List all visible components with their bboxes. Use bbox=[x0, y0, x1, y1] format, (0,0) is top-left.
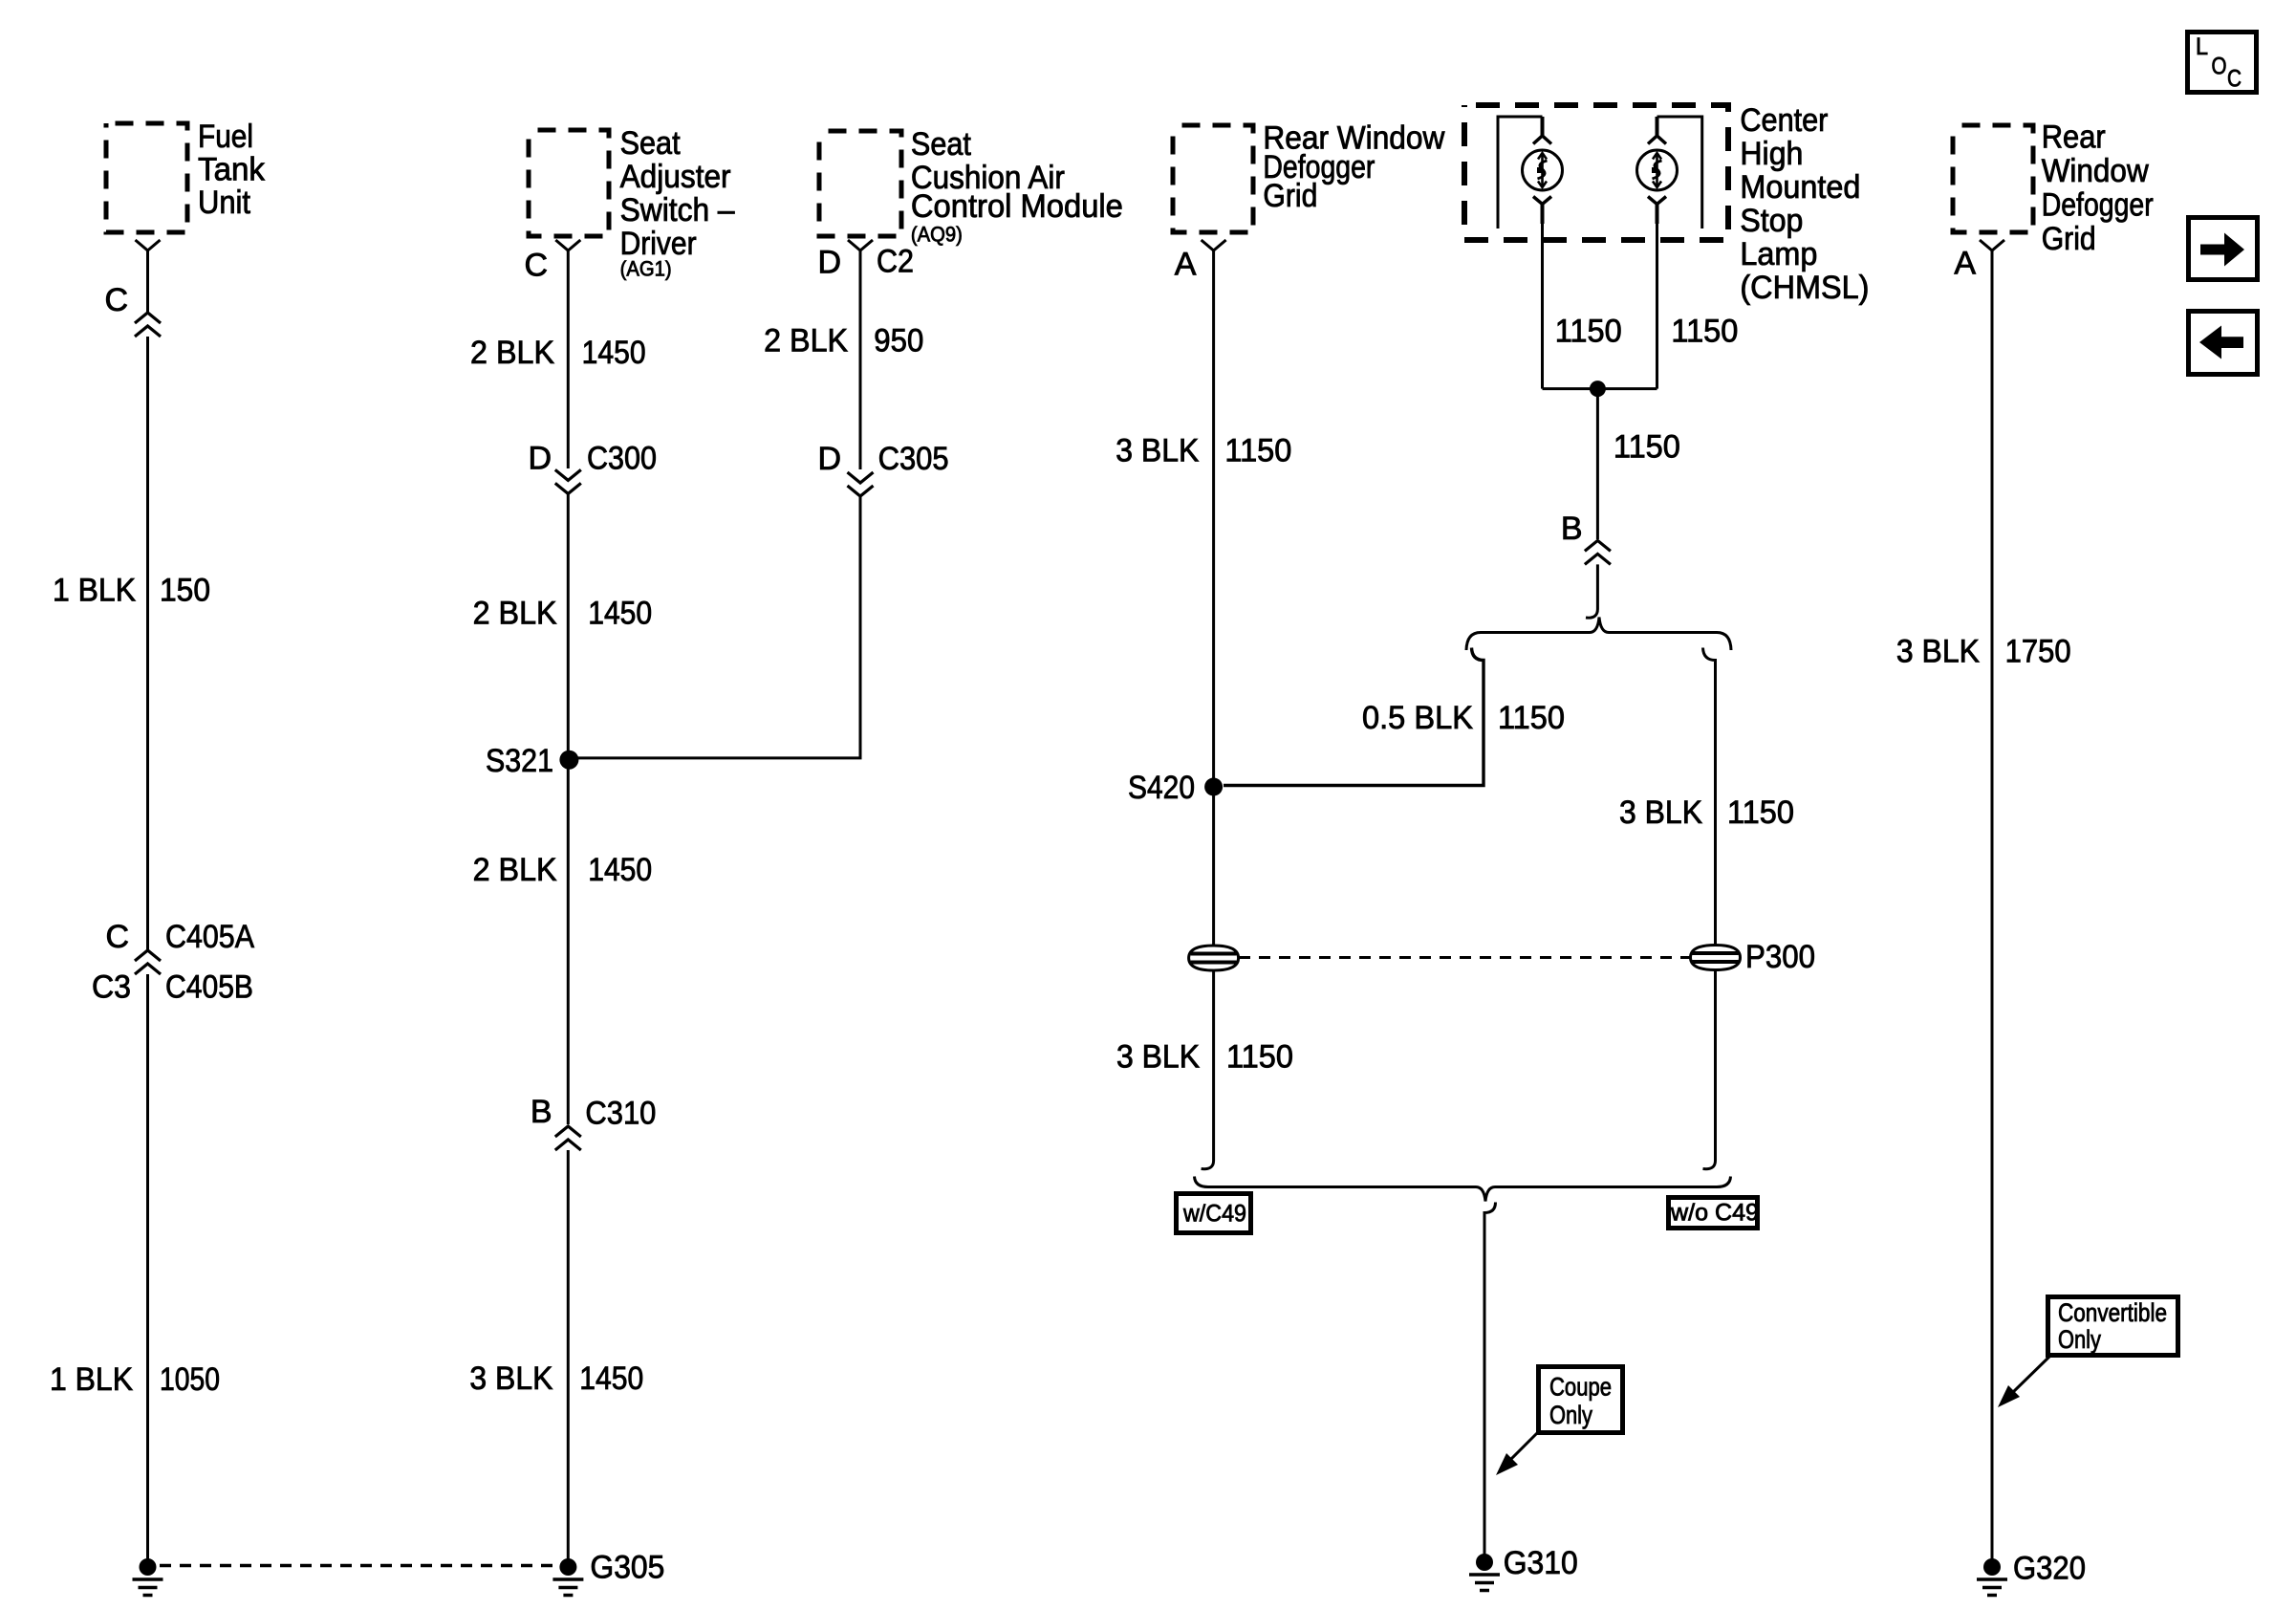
component DG2: Rear Window Defogger Grid right (dashed box) bbox=[1953, 120, 2154, 258]
svg-text:0.5 BLK: 0.5 BLK bbox=[1362, 700, 1473, 736]
connector C (out-of-page double chevron, fuel tank) bbox=[135, 313, 161, 337]
wire: 3 BLK 1750 from right defogger grid to G320 bbox=[1991, 250, 1994, 1560]
svg-text:G320: G320 bbox=[2013, 1551, 2086, 1587]
wire: w/o C49 branch hook top down to P300 right bbox=[1703, 648, 1716, 946]
svg-text:(AG1): (AG1) bbox=[620, 257, 672, 281]
svg-text:D: D bbox=[817, 244, 841, 280]
svg-text:Window: Window bbox=[2042, 153, 2149, 189]
svg-text:2 BLK: 2 BLK bbox=[764, 323, 848, 359]
callout box: Coupe Only bbox=[1539, 1367, 1623, 1433]
wire: 2 BLK 1450 from C300 through splice S321 to C310 bbox=[567, 494, 570, 1124]
wire: 2 BLK 1450 from switch to C300 bbox=[567, 250, 570, 468]
wire: S420 down to P300 pass-through bbox=[1212, 787, 1215, 946]
pin label C (fuel tank unit) bbox=[104, 282, 128, 318]
svg-text:Seat: Seat bbox=[911, 126, 971, 163]
pin label A (left defogger grid) bbox=[1175, 247, 1197, 283]
svg-text:3 BLK: 3 BLK bbox=[1619, 794, 1702, 831]
wire label: 3 BLK 1750 bbox=[1896, 634, 2071, 670]
svg-text:(CHMSL): (CHMSL) bbox=[1740, 270, 1869, 306]
wire: left bulb 1150 lead down to junction bbox=[1541, 224, 1544, 389]
svg-text:Only: Only bbox=[1549, 1401, 1592, 1429]
svg-text:Stop: Stop bbox=[1740, 203, 1803, 239]
wire: dashed tie line of P300 bbox=[1239, 956, 1690, 959]
wire: stub from B chevrons to option brace (hooked end) bbox=[1586, 564, 1597, 618]
wire label: 1 BLK 1050 bbox=[50, 1361, 220, 1398]
wire: right lamp internal feed (staple) bbox=[1657, 117, 1702, 228]
splice S420 (junction dot) bbox=[1128, 770, 1223, 806]
wire label: 2 BLK 1450 (below S321) bbox=[473, 852, 653, 888]
svg-text:1150: 1150 bbox=[1498, 700, 1565, 736]
wire: 1150 from junction down to connector B bbox=[1596, 389, 1599, 539]
wire label: 1150 (right bulb lead) bbox=[1671, 313, 1738, 349]
svg-text:950: 950 bbox=[874, 323, 923, 359]
legend: back arrow box bbox=[2189, 312, 2258, 375]
brace: option merge (bottom underbrace) bbox=[1195, 1177, 1731, 1202]
wire label: 3 BLK 1150 (above S420) bbox=[1116, 433, 1291, 469]
wire: w/C49 branch 0.5 BLK 1150, hook top then down and left to S420 bbox=[1224, 648, 1484, 786]
lamp DS1: left CHMSL bulb bbox=[1523, 117, 1563, 224]
svg-text:1150: 1150 bbox=[1226, 1038, 1293, 1075]
pin label A (right defogger grid) bbox=[1954, 246, 1976, 282]
connector C405 (C C405A / C3 C405B) bbox=[92, 919, 254, 1006]
svg-text:Center: Center bbox=[1740, 102, 1828, 139]
svg-text:L: L bbox=[2196, 33, 2208, 60]
component S1: Seat Adjuster Switch - Driver (dashed box) bbox=[529, 125, 735, 281]
svg-text:C405B: C405B bbox=[165, 969, 253, 1006]
svg-text:Seat: Seat bbox=[620, 125, 681, 162]
svg-text:C: C bbox=[524, 248, 548, 284]
svg-text:C: C bbox=[2227, 66, 2242, 93]
svg-text:3 BLK: 3 BLK bbox=[1896, 634, 1980, 670]
svg-text:Tank: Tank bbox=[198, 152, 266, 188]
svg-text:1 BLK: 1 BLK bbox=[53, 573, 136, 609]
wire: 2 BLK 1450 from C305 down and left to splice S321 bbox=[570, 497, 860, 758]
wire label: 2 BLK 1450 (below C300) bbox=[473, 595, 653, 631]
callout box: Convertible Only bbox=[2048, 1297, 2178, 1356]
svg-text:1450: 1450 bbox=[579, 1360, 643, 1397]
svg-text:C305: C305 bbox=[878, 441, 949, 477]
svg-text:C: C bbox=[105, 919, 129, 955]
brace: option split (top overbrace) bbox=[1466, 618, 1731, 651]
svg-text:Coupe: Coupe bbox=[1549, 1373, 1612, 1402]
svg-text:G305: G305 bbox=[590, 1550, 664, 1586]
wire label: 1150 (junction to B) bbox=[1614, 428, 1680, 465]
svg-text:1750: 1750 bbox=[2005, 634, 2071, 670]
wire: 3 BLK 1150 from defogger grid to splice S420 bbox=[1212, 250, 1215, 787]
connector C305 (pin D, in-line double chevron down) bbox=[817, 441, 948, 496]
pin arrow at left defogger grid output bbox=[1202, 240, 1226, 250]
component M1: Seat Cushion Air Control Module (dashed box) bbox=[819, 126, 1123, 247]
svg-text:w/C49: w/C49 bbox=[1182, 1201, 1246, 1228]
option tag box: w/C49 bbox=[1177, 1194, 1251, 1233]
svg-text:2 BLK: 2 BLK bbox=[473, 852, 557, 888]
svg-text:B: B bbox=[531, 1094, 552, 1130]
label: P300 bbox=[1745, 939, 1815, 975]
pin arrow at right defogger grid output bbox=[1980, 240, 2004, 250]
wire: merged ground lead from brace cusp down to G310 bbox=[1484, 1203, 1496, 1556]
svg-text:C3: C3 bbox=[92, 969, 131, 1006]
svg-text:3 BLK: 3 BLK bbox=[1116, 433, 1199, 469]
svg-text:C2: C2 bbox=[877, 244, 914, 280]
svg-text:1150: 1150 bbox=[1614, 428, 1680, 465]
svg-text:B: B bbox=[1561, 511, 1583, 547]
svg-text:D: D bbox=[817, 441, 841, 477]
callout arrow: Coupe Only points to ground lead bbox=[1496, 1433, 1537, 1475]
svg-text:Switch –: Switch – bbox=[620, 192, 735, 228]
svg-text:C310: C310 bbox=[585, 1096, 656, 1132]
wire: right bulb 1150 lead down to junction bbox=[1656, 224, 1658, 389]
option tag box: w/o C49 bbox=[1669, 1198, 1760, 1229]
ground symbol (left leg of G305) bbox=[133, 1558, 163, 1596]
wire label: 2 BLK 950 bbox=[764, 323, 923, 359]
svg-text:Control Module: Control Module bbox=[911, 188, 1123, 225]
wire: w/o C49 branch from P300 down to option end bbox=[1703, 970, 1716, 1169]
svg-text:Lamp: Lamp bbox=[1740, 236, 1817, 272]
legend: forward arrow box bbox=[2189, 218, 2258, 280]
legend: LOC reference box bbox=[2188, 33, 2257, 93]
wire: 1 BLK 1050 segment from C405B to ground G305 left leg bbox=[146, 974, 149, 1560]
svg-text:Rear: Rear bbox=[2042, 120, 2106, 156]
svg-text:Convertible: Convertible bbox=[2058, 1298, 2167, 1327]
svg-text:1150: 1150 bbox=[1671, 313, 1738, 349]
splice S321 (junction dot) bbox=[486, 743, 578, 779]
connector B (out-of-page double chevron, CHMSL feed) bbox=[1561, 511, 1611, 564]
svg-text:C: C bbox=[104, 282, 128, 318]
svg-text:1450: 1450 bbox=[588, 595, 652, 631]
svg-text:High: High bbox=[1740, 136, 1803, 172]
ground G305 (right leg, main ground symbol) bbox=[552, 1550, 664, 1596]
callout arrow: Convertible Only points to ground lead bbox=[1998, 1357, 2049, 1407]
svg-text:w/o C49: w/o C49 bbox=[1670, 1200, 1759, 1227]
svg-text:150: 150 bbox=[160, 573, 210, 609]
svg-text:1 BLK: 1 BLK bbox=[50, 1361, 133, 1398]
wire label: 3 BLK 1150 (w/o C49 branch) bbox=[1619, 794, 1794, 831]
ground G320 bbox=[1977, 1551, 2086, 1596]
svg-text:Only: Only bbox=[2058, 1325, 2101, 1354]
component U1: Fuel Tank Unit (dashed box) bbox=[106, 119, 266, 232]
lamp DS2: right CHMSL bulb bbox=[1637, 117, 1678, 224]
svg-text:O: O bbox=[2212, 54, 2227, 80]
svg-text:G310: G310 bbox=[1504, 1545, 1578, 1581]
svg-text:C405A: C405A bbox=[165, 919, 254, 955]
pin arrow at Seat Cushion Air Control Module output bbox=[848, 240, 873, 250]
svg-text:Fuel: Fuel bbox=[198, 119, 253, 155]
wire: dashed ground tie between both G305 legs bbox=[160, 1564, 558, 1567]
svg-text:1150: 1150 bbox=[1555, 313, 1622, 349]
wire label: 3 BLK 1150 (below P300) bbox=[1116, 1038, 1293, 1075]
pin arrow at Fuel Tank Unit output bbox=[136, 240, 161, 250]
svg-text:Mounted: Mounted bbox=[1740, 169, 1860, 206]
wire: 3 BLK 1150 from P300 down to w/C49 option end bbox=[1202, 970, 1214, 1169]
svg-text:2 BLK: 2 BLK bbox=[470, 335, 554, 371]
svg-text:A: A bbox=[1954, 246, 1976, 282]
svg-text:P300: P300 bbox=[1745, 939, 1815, 975]
svg-text:Unit: Unit bbox=[198, 185, 250, 221]
wire label: 3 BLK 1450 bbox=[469, 1360, 643, 1397]
component E1: Center High Mounted Stop Lamp CHMSL (dashed box) bbox=[1464, 102, 1869, 306]
pin label D / connector C2 bbox=[817, 244, 914, 281]
pin label C (seat adjuster switch) bbox=[524, 248, 548, 284]
svg-text:Grid: Grid bbox=[2042, 221, 2096, 257]
svg-text:Defogger: Defogger bbox=[2042, 187, 2154, 224]
svg-text:1450: 1450 bbox=[582, 335, 646, 371]
svg-text:1450: 1450 bbox=[588, 852, 652, 888]
pin arrow at Seat Adjuster Switch output bbox=[555, 240, 580, 250]
component DG1: Rear Window Defogger Grid left (dashed box) bbox=[1173, 120, 1445, 232]
svg-text:1050: 1050 bbox=[160, 1361, 220, 1398]
connector C300 (pin D, in-line double chevron down) bbox=[528, 440, 657, 493]
svg-text:(AQ9): (AQ9) bbox=[911, 223, 963, 247]
svg-text:1150: 1150 bbox=[1224, 433, 1291, 469]
svg-text:Grid: Grid bbox=[1263, 178, 1317, 214]
svg-text:A: A bbox=[1175, 247, 1197, 283]
svg-text:3 BLK: 3 BLK bbox=[1116, 1038, 1200, 1075]
wire: left lamp internal feed (staple) bbox=[1498, 117, 1543, 228]
svg-text:S321: S321 bbox=[486, 743, 553, 779]
ground G310 bbox=[1469, 1545, 1578, 1591]
wire: 1 BLK 150 segment down to C405 bbox=[146, 337, 149, 949]
svg-text:3 BLK: 3 BLK bbox=[469, 1360, 552, 1397]
wire label: 1150 (left bulb lead) bbox=[1555, 313, 1622, 349]
wire: fuel tank unit pin C down to connector chevrons bbox=[146, 250, 149, 312]
svg-text:C300: C300 bbox=[587, 440, 657, 476]
svg-text:S420: S420 bbox=[1128, 770, 1195, 806]
connector C310 (pin B, in-line double chevron up) bbox=[531, 1094, 656, 1150]
wire: junction bar joining both bulb leads bbox=[1543, 387, 1657, 390]
wire: 3 BLK 1450 from C310 to ground G305 bbox=[567, 1150, 570, 1560]
wire label: 1 BLK 150 bbox=[53, 573, 210, 609]
svg-text:2 BLK: 2 BLK bbox=[473, 595, 557, 631]
wire label: 0.5 BLK 1150 bbox=[1362, 700, 1565, 736]
svg-text:1150: 1150 bbox=[1727, 794, 1794, 831]
wire label: 2 BLK 1450 (above C300) bbox=[470, 335, 646, 371]
node: CHMSL lead junction dot bbox=[1590, 381, 1606, 397]
svg-text:Adjuster: Adjuster bbox=[620, 159, 731, 195]
connector P300 (left grommet symbol) bbox=[1189, 946, 1239, 970]
svg-text:D: D bbox=[528, 440, 552, 476]
connector P300 (right grommet symbol) bbox=[1691, 946, 1741, 970]
wire: 2 BLK 950 from module C2 to C305 bbox=[859, 250, 862, 469]
